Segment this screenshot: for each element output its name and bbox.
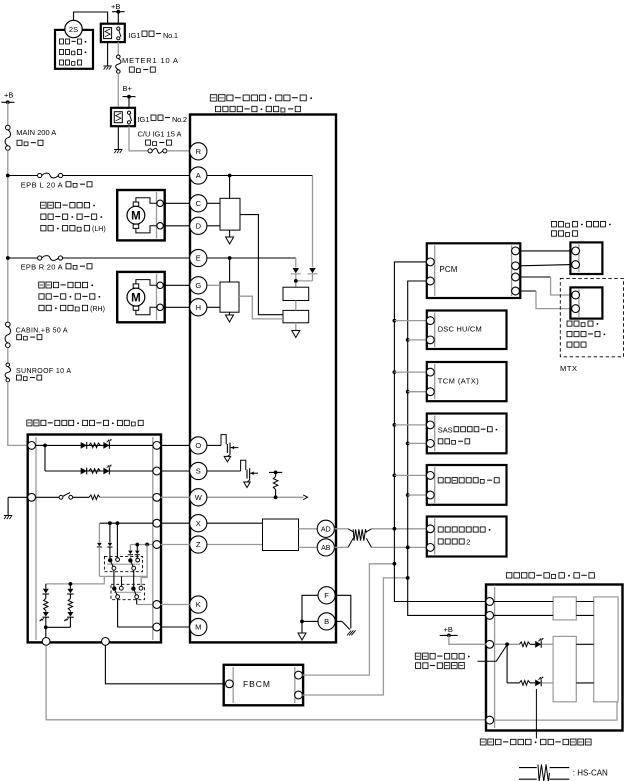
svg-text:Z: Z (196, 540, 201, 549)
svg-text:PCM: PCM (439, 265, 457, 274)
svg-text:MAIN 200 A: MAIN 200 A (16, 128, 56, 137)
svg-text:S: S (196, 467, 201, 476)
svg-text:No.2: No.2 (172, 115, 187, 124)
svg-text:No.1: No.1 (163, 31, 178, 40)
svg-text:IG1: IG1 (129, 31, 141, 40)
svg-text:EPB L 20 A: EPB L 20 A (21, 180, 63, 189)
svg-text:+B: +B (4, 91, 13, 100)
svg-text:O: O (195, 441, 201, 450)
svg-text:TCM (ATX): TCM (ATX) (438, 376, 480, 385)
svg-text:: HS-CAN: : HS-CAN (573, 769, 608, 778)
svg-text:R: R (196, 147, 202, 156)
svg-text:EPB R 20 A: EPB R 20 A (21, 262, 63, 271)
svg-text:AB: AB (321, 545, 331, 552)
svg-text:IG1: IG1 (138, 115, 150, 124)
svg-text:(LH): (LH) (92, 226, 106, 233)
svg-text:G: G (195, 281, 201, 290)
svg-text:E: E (196, 254, 201, 263)
svg-text:SUNROOF 10 A: SUNROOF 10 A (16, 368, 71, 375)
svg-text:X: X (196, 519, 201, 528)
svg-text:K: K (196, 600, 201, 609)
svg-text:FBCM: FBCM (243, 679, 270, 689)
svg-text:A: A (196, 171, 201, 180)
svg-text:W: W (195, 493, 203, 502)
svg-text:C: C (196, 199, 202, 208)
svg-text:M: M (131, 210, 141, 222)
svg-text:C/U IG1 15 A: C/U IG1 15 A (138, 130, 182, 139)
svg-text:MTX: MTX (560, 364, 577, 373)
svg-text:METER1 10 A: METER1 10 A (122, 56, 178, 65)
svg-text:2S: 2S (69, 25, 78, 34)
svg-text:M: M (131, 292, 141, 304)
svg-text:+B: +B (444, 625, 453, 634)
svg-text:B+: B+ (123, 84, 133, 93)
svg-text:+B: +B (111, 2, 120, 11)
svg-text:H: H (196, 303, 201, 312)
svg-text:DSC HU/CM: DSC HU/CM (438, 324, 482, 333)
svg-text:B: B (324, 617, 329, 626)
svg-text:D: D (196, 222, 202, 231)
svg-text:M: M (195, 623, 201, 632)
svg-text:2: 2 (466, 537, 470, 546)
svg-text:SAS: SAS (438, 426, 453, 435)
svg-text:CABIN.+B 50 A: CABIN.+B 50 A (16, 328, 68, 335)
svg-text:F: F (324, 591, 329, 600)
svg-text:(RH): (RH) (90, 306, 105, 313)
svg-text:AD: AD (321, 526, 331, 533)
